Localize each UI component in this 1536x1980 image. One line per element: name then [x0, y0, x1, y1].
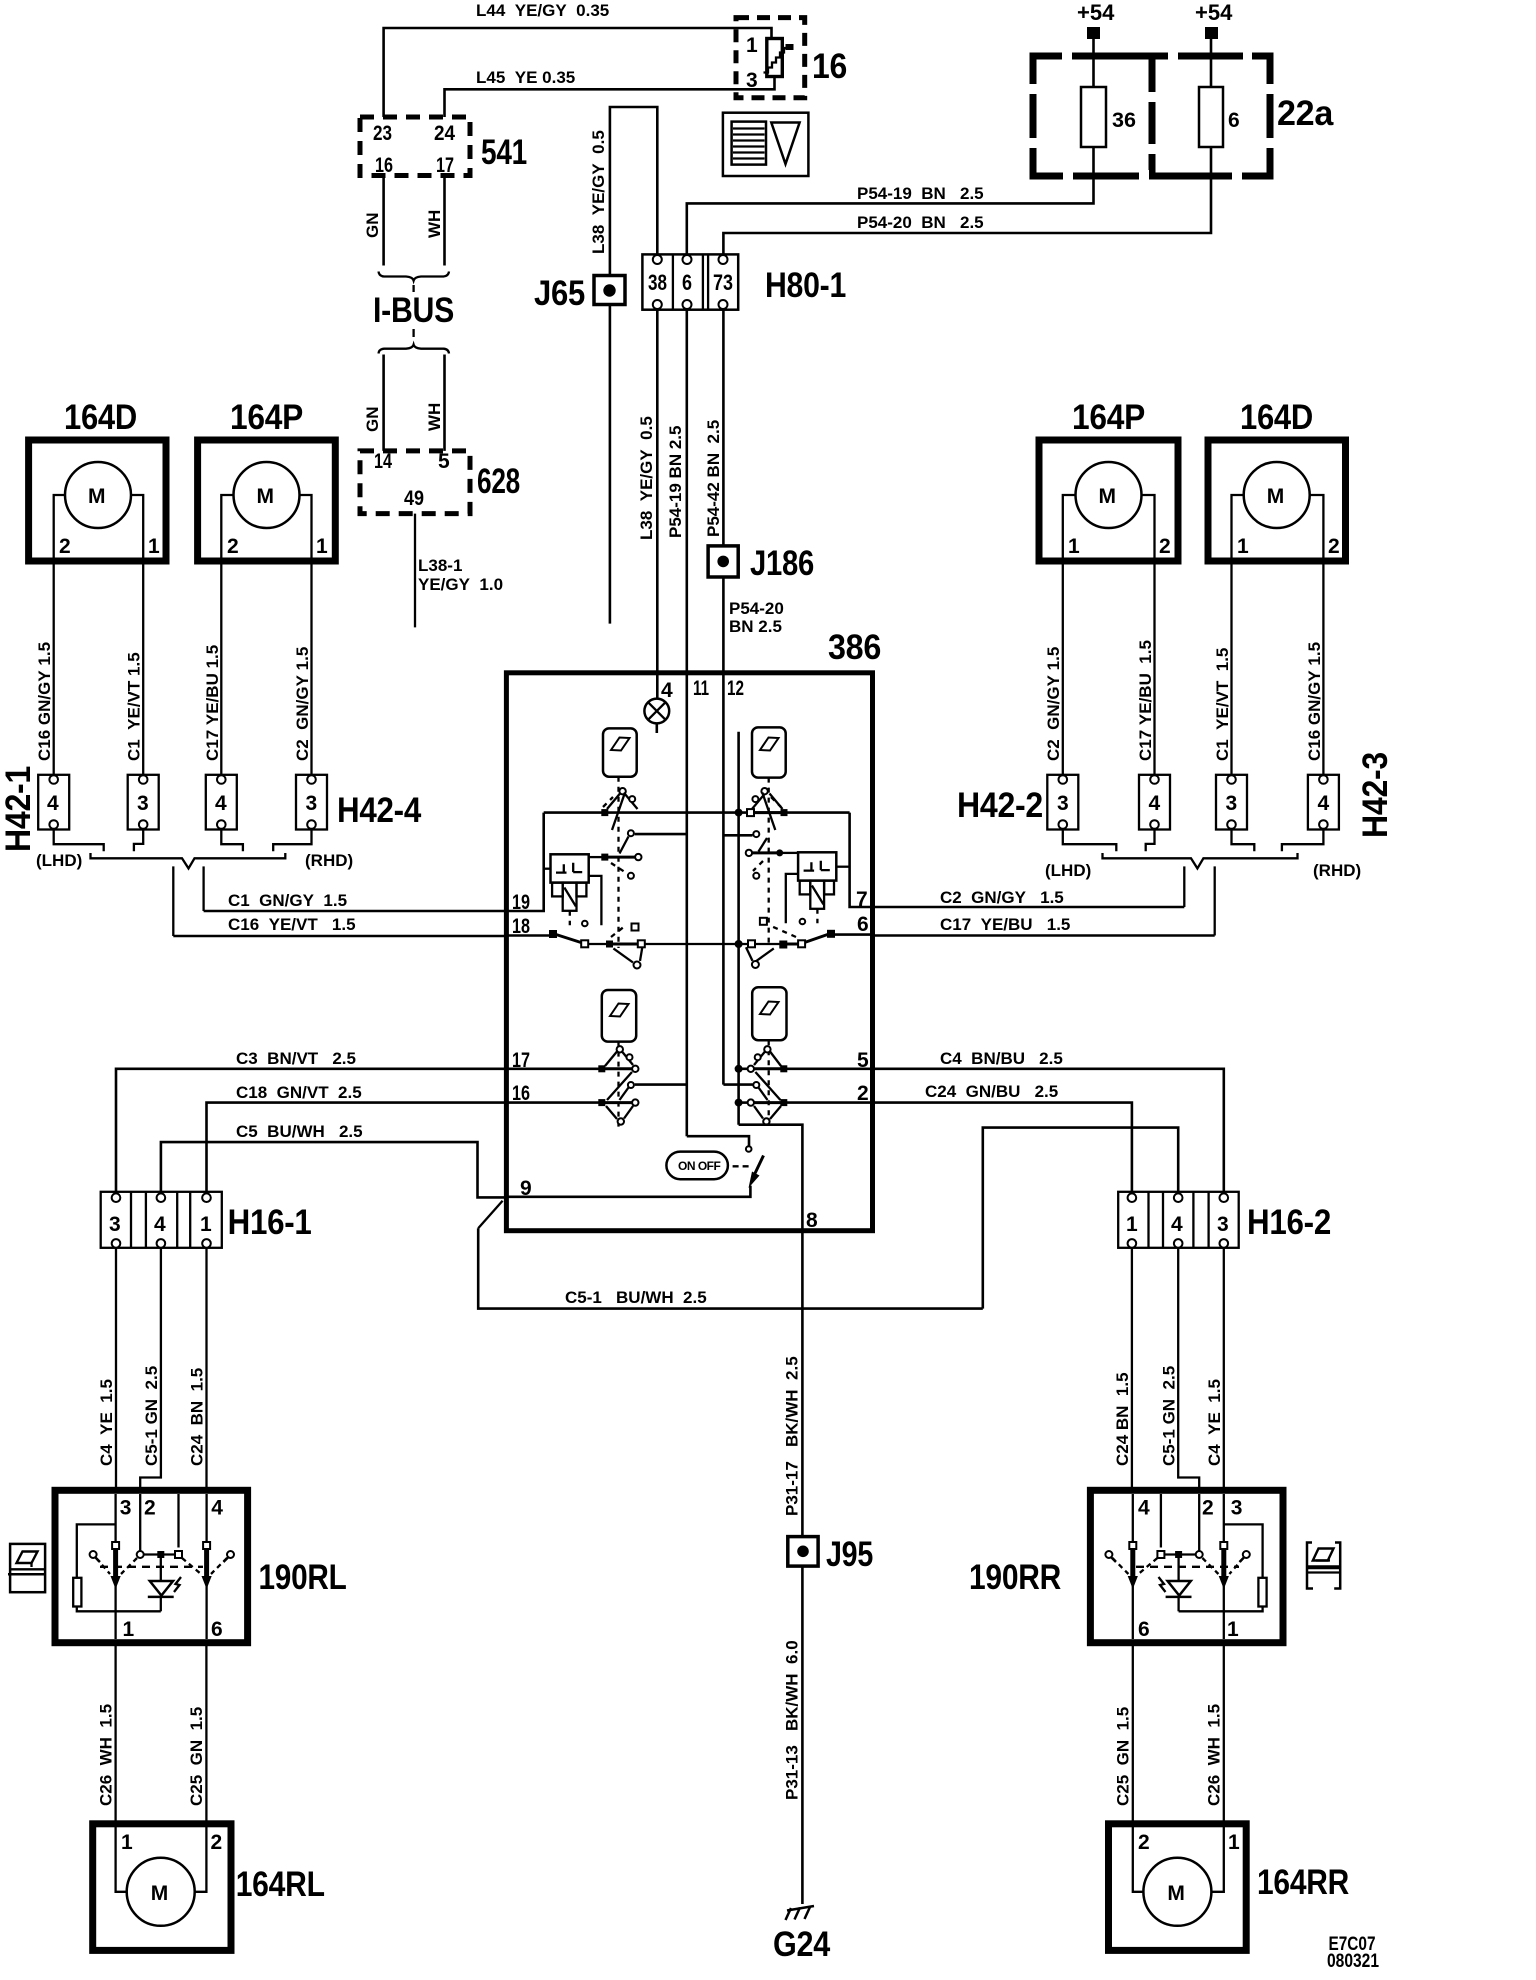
window icon rear-left — [602, 990, 636, 1042]
window icon front-left — [603, 728, 637, 776]
386 pin 11 internal wire — [685, 673, 688, 1136]
splice J186 — [708, 544, 814, 583]
svg-text:J95: J95 — [826, 1535, 873, 1574]
svg-text:2: 2 — [211, 1831, 223, 1854]
rear-left switch cluster — [506, 1042, 686, 1130]
window icon right of 190RR — [1307, 1543, 1340, 1589]
svg-text:2: 2 — [227, 535, 239, 558]
svg-text:1: 1 — [316, 535, 328, 558]
splice J65 — [534, 274, 625, 313]
svg-text:4: 4 — [215, 792, 227, 815]
svg-text:(LHD): (LHD) — [36, 851, 82, 870]
motor 164D front right — [1208, 398, 1346, 561]
wire C26 WH 1.5 right — [1205, 1643, 1224, 1824]
svg-text:2: 2 — [1328, 535, 1340, 558]
window icon rear-right — [752, 987, 786, 1040]
svg-text:22a: 22a — [1277, 94, 1334, 133]
wire C4 BN/BU 2.5 — [873, 1049, 1224, 1193]
wire P54-19 BN 2.5 — [687, 147, 1094, 254]
rear-right switch cluster — [723, 1040, 872, 1130]
connector H80-1 — [642, 254, 846, 309]
wire C25 GN 1.5 right — [1114, 1643, 1133, 1824]
svg-text:P31-13 BK/WH 6.0: P31-13 BK/WH 6.0 — [783, 1640, 802, 1800]
svg-text:P54-20: P54-20 — [729, 599, 784, 618]
svg-text:C1 YE/VT 1.5: C1 YE/VT 1.5 — [125, 652, 144, 761]
190RL internals — [73, 1494, 234, 1639]
svg-text:628: 628 — [477, 462, 520, 501]
svg-text:1: 1 — [148, 535, 160, 558]
svg-text:C5-1 BU/WH 2.5: C5-1 BU/WH 2.5 — [565, 1288, 707, 1307]
motor 164P front passenger (right group) — [1039, 398, 1178, 561]
svg-text:2: 2 — [1159, 535, 1171, 558]
wire C16 GN/GY 1.5 (164D-2) — [35, 561, 54, 775]
386 pin 9 wire — [506, 1186, 750, 1197]
svg-text:4: 4 — [1138, 1497, 1150, 1520]
wire C24 BN 1.5 right — [1113, 1248, 1132, 1491]
svg-text:(RHD): (RHD) — [305, 851, 353, 870]
svg-text:6: 6 — [857, 913, 869, 936]
LHD/RHD merge right — [1045, 829, 1361, 936]
svg-text:C25 GN 1.5: C25 GN 1.5 — [1114, 1707, 1133, 1806]
svg-text:16: 16 — [375, 154, 393, 177]
I-BUS brace lower — [379, 345, 450, 354]
ON OFF lockout symbol — [666, 1152, 763, 1188]
wire P54-42 BN 2.5 to J186 — [704, 310, 723, 546]
svg-text:L38 YE/GY 0.5: L38 YE/GY 0.5 — [589, 130, 608, 254]
svg-text:C25 GN 1.5: C25 GN 1.5 — [187, 1707, 206, 1806]
svg-text:1: 1 — [1126, 1213, 1138, 1236]
svg-text:541: 541 — [481, 133, 527, 172]
svg-text:C16 GN/GY 1.5: C16 GN/GY 1.5 — [1305, 642, 1324, 761]
svg-text:C24 BN 1.5: C24 BN 1.5 — [1113, 1372, 1132, 1466]
connector H42-3 — [1216, 752, 1395, 838]
LHD/RHD merge left — [36, 829, 353, 936]
connector H16-2 — [1118, 1192, 1331, 1248]
wire C5 BU/WH 2.5 — [161, 1122, 505, 1197]
svg-text:3: 3 — [109, 1213, 121, 1236]
svg-text:164RR: 164RR — [1257, 1863, 1349, 1902]
svg-text:H42-2: H42-2 — [957, 786, 1043, 825]
wire C24 GN/BU 2.5 — [873, 1082, 1132, 1193]
wire C4 YE 1.5 — [97, 1248, 116, 1491]
svg-text:L38 YE/GY 0.5: L38 YE/GY 0.5 — [637, 416, 656, 540]
wire P54-20 BN 2.5 to 386 pin 12 — [723, 577, 783, 673]
wire GN from 541 pin 16 — [363, 176, 384, 266]
svg-text:3: 3 — [746, 69, 758, 92]
fuse 6 — [1199, 87, 1240, 147]
wire C16 YE/VT 1.5 to 386 pin 18 — [173, 915, 506, 936]
svg-text:4: 4 — [47, 792, 59, 815]
power feed +54 (right) — [1195, 0, 1233, 87]
svg-text:3: 3 — [137, 792, 149, 815]
16 pins 1 3 — [746, 34, 758, 92]
wire C1 YE/VT 1.5 (164D-1) — [125, 561, 144, 775]
lockout switch feed from pin 11 — [687, 1136, 752, 1152]
svg-text:C1 GN/GY 1.5: C1 GN/GY 1.5 — [228, 891, 347, 910]
SEC1 — [360, 1, 775, 627]
svg-text:+54: +54 — [1077, 0, 1115, 25]
window icon left of 190RL — [8, 1544, 45, 1592]
svg-text:3: 3 — [1226, 792, 1238, 815]
svg-text:C5 BU/WH 2.5: C5 BU/WH 2.5 — [236, 1122, 363, 1141]
wire L38 YE/GY 0.5 bridge — [589, 107, 657, 276]
wire stub below J65 — [609, 305, 612, 624]
svg-text:M: M — [1167, 1882, 1185, 1905]
svg-text:I-BUS: I-BUS — [373, 291, 454, 330]
motor 164RR — [1109, 1824, 1350, 1951]
wire stub from 628 pin 49 — [414, 514, 416, 628]
wire WH to 628 pin 5 — [425, 355, 445, 451]
wire L44 YE/GY 0.35 — [384, 1, 772, 117]
svg-text:164RL: 164RL — [236, 1865, 325, 1904]
svg-text:4: 4 — [1171, 1213, 1183, 1236]
190RR internals — [1105, 1494, 1266, 1639]
wire C5-1 GN 2.5 — [140, 1248, 161, 1491]
svg-text:H42-1: H42-1 — [0, 766, 38, 852]
wire C1 GN/GY 1.5 to 386 pin 19 — [204, 891, 507, 911]
power feed +54 (left) — [1077, 0, 1115, 87]
svg-text:(LHD): (LHD) — [1045, 861, 1091, 880]
motor 164D front left — [29, 398, 166, 561]
svg-text:11: 11 — [693, 677, 709, 700]
wire C2 GN/GY 1.5 to 386 pin 7 — [873, 888, 1185, 907]
svg-text:L45 YE 0.35: L45 YE 0.35 — [476, 68, 575, 87]
svg-text:P54-19 BN 2.5: P54-19 BN 2.5 — [857, 184, 984, 203]
I-BUS brace upper — [379, 272, 450, 281]
386 pin labels left edge — [512, 891, 532, 1200]
386 pin 12 internal wire — [722, 673, 725, 1085]
svg-text:ON OFF: ON OFF — [678, 1159, 720, 1173]
svg-text:P31-17 BK/WH 2.5: P31-17 BK/WH 2.5 — [783, 1356, 802, 1516]
svg-text:38: 38 — [648, 270, 667, 295]
svg-text:3: 3 — [120, 1497, 132, 1520]
svg-text:190RR: 190RR — [969, 1558, 1061, 1597]
svg-text:M: M — [1267, 485, 1285, 508]
thermal breaker right — [786, 852, 850, 924]
window switch unit 386 — [506, 628, 881, 1231]
svg-text:5: 5 — [438, 450, 450, 473]
wire L45 YE 0.35 — [445, 68, 775, 117]
svg-text:1: 1 — [123, 1618, 135, 1641]
svg-text:4: 4 — [211, 1497, 223, 1520]
svg-text:P54-20 BN 2.5: P54-20 BN 2.5 — [857, 213, 984, 232]
connector H42-2 — [957, 775, 1170, 830]
wire C4 YE 1.5 right — [1205, 1248, 1224, 1491]
svg-text:C17 YE/BU 1.5: C17 YE/BU 1.5 — [203, 645, 222, 761]
rheostat R in 16 — [764, 39, 794, 77]
svg-text:C4 YE 1.5: C4 YE 1.5 — [97, 1379, 116, 1466]
wire C5-1 BU/WH riser right — [983, 1128, 1178, 1309]
front-right switch cluster — [723, 778, 798, 946]
I-BUS node — [373, 285, 454, 337]
motor 164RL — [93, 1824, 325, 1951]
ground G24 — [773, 1906, 831, 1964]
internal bus to pin 8 — [739, 732, 803, 1231]
thermal breaker left — [544, 854, 602, 926]
svg-text:2: 2 — [59, 535, 71, 558]
svg-text:L38-1: L38-1 — [418, 556, 462, 575]
wire kink from 386 pin 9 — [478, 1201, 502, 1229]
fuse 36 — [1081, 87, 1136, 147]
svg-text:1: 1 — [1227, 1618, 1239, 1641]
rear-right window switch 190RR — [969, 1490, 1283, 1642]
label L38-1 YE/GY 1.0 — [418, 556, 503, 594]
386 pin labels right edge — [806, 888, 869, 1232]
svg-text:J186: J186 — [750, 544, 814, 583]
svg-text:164P: 164P — [230, 398, 303, 437]
svg-text:23: 23 — [373, 122, 392, 145]
svg-text:C16 YE/VT 1.5: C16 YE/VT 1.5 — [228, 915, 356, 934]
svg-text:BN 2.5: BN 2.5 — [729, 617, 782, 636]
svg-text:19: 19 — [512, 891, 530, 914]
svg-text:080321: 080321 — [1327, 1951, 1379, 1972]
svg-text:1: 1 — [1228, 1831, 1240, 1854]
svg-text:164D: 164D — [64, 398, 137, 437]
svg-text:164D: 164D — [1240, 398, 1313, 437]
svg-text:1: 1 — [200, 1213, 212, 1236]
svg-text:2: 2 — [1202, 1497, 1214, 1520]
SEC10 — [773, 1231, 1379, 1972]
svg-text:17: 17 — [436, 154, 454, 177]
wire C3 BN/VT 2.5 — [116, 1049, 506, 1193]
svg-text:WH: WH — [425, 403, 444, 431]
svg-text:12: 12 — [727, 677, 744, 700]
window function icon box — [723, 113, 809, 176]
svg-text:1: 1 — [1237, 535, 1249, 558]
SEC6 — [0, 398, 506, 936]
splice J95 — [788, 1535, 873, 1574]
wire P54-19 BN 2.5 to 386 pin 11 — [666, 310, 687, 673]
wire WH from 541 pin 17 — [425, 176, 445, 266]
svg-text:4: 4 — [1318, 792, 1330, 815]
svg-text:14: 14 — [374, 450, 392, 473]
svg-text:190RL: 190RL — [259, 1558, 347, 1597]
svg-text:24: 24 — [434, 122, 455, 145]
connector H42-4 — [206, 775, 422, 830]
svg-text:6: 6 — [682, 270, 692, 295]
svg-text:C16 GN/GY 1.5: C16 GN/GY 1.5 — [35, 642, 54, 761]
svg-text:3: 3 — [1057, 792, 1069, 815]
rear-left window switch 190RL — [55, 1490, 347, 1642]
wire P54-20 BN 2.5 — [723, 147, 1211, 254]
svg-text:1: 1 — [746, 34, 758, 57]
svg-text:C26 WH 1.5: C26 WH 1.5 — [1205, 1704, 1224, 1806]
wire C16 GN/GY 1.5 (164D-2 right) — [1305, 561, 1324, 775]
svg-text:C2 GN/GY 1.5: C2 GN/GY 1.5 — [293, 647, 312, 761]
svg-text:C1 YE/VT 1.5: C1 YE/VT 1.5 — [1213, 648, 1232, 761]
svg-text:18: 18 — [512, 915, 530, 938]
svg-text:C18 GN/VT 2.5: C18 GN/VT 2.5 — [236, 1083, 362, 1102]
svg-text:C5-1 GN 2.5: C5-1 GN 2.5 — [142, 1366, 161, 1466]
svg-text:4: 4 — [1149, 792, 1161, 815]
svg-text:C17 YE/BU 1.5: C17 YE/BU 1.5 — [940, 915, 1070, 934]
svg-text:C5-1 GN 2.5: C5-1 GN 2.5 — [1160, 1366, 1179, 1466]
drawing number E7C07 080321 — [1327, 1934, 1379, 1972]
svg-text:C24 GN/BU 2.5: C24 GN/BU 2.5 — [925, 1082, 1058, 1101]
riser to pin 19 — [506, 813, 543, 911]
svg-text:C2 GN/GY 1.5: C2 GN/GY 1.5 — [1044, 647, 1063, 761]
svg-text:3: 3 — [1231, 1497, 1243, 1520]
386 pin numbers top — [661, 677, 744, 702]
pin 18 contact arm — [506, 924, 747, 969]
svg-text:M: M — [151, 1882, 169, 1905]
wire GN to 628 pin 14 — [363, 355, 384, 451]
svg-text:C24 BN 1.5: C24 BN 1.5 — [188, 1368, 207, 1466]
svg-text:YE/GY 1.0: YE/GY 1.0 — [418, 575, 503, 594]
628 pins 14 5 49 — [374, 450, 450, 510]
svg-text:C4 YE 1.5: C4 YE 1.5 — [1205, 1379, 1224, 1466]
wire C17 YE/BU 1.5 to 386 pin 6 — [873, 915, 1215, 936]
svg-text:C26 WH 1.5: C26 WH 1.5 — [97, 1704, 116, 1806]
svg-text:4: 4 — [661, 679, 673, 702]
svg-text:C4 BN/BU 2.5: C4 BN/BU 2.5 — [940, 1049, 1063, 1068]
main bus wire y813 — [544, 811, 850, 814]
541 pins 23 24 16 17 — [373, 122, 455, 177]
lamp at 386 pin 4 — [644, 699, 669, 733]
wire C18 GN/VT 2.5 — [207, 1083, 507, 1193]
svg-text:H42-3: H42-3 — [1356, 752, 1395, 838]
wire C5-1 BU/WH 2.5 — [478, 1228, 983, 1308]
svg-text:H80-1: H80-1 — [765, 266, 846, 305]
svg-text:H42-4: H42-4 — [337, 791, 422, 830]
wire C17 YE/BU 1.5 (164P-2 right) — [1136, 561, 1155, 775]
wire C25 GN 1.5 — [187, 1643, 206, 1824]
svg-text:J65: J65 — [534, 274, 585, 313]
front-left switch cluster — [589, 777, 687, 948]
SEC3 — [687, 0, 1334, 254]
svg-text:2: 2 — [1138, 1831, 1150, 1854]
connector H42-1 — [0, 766, 159, 852]
svg-text:49: 49 — [404, 487, 424, 510]
SEC5 — [506, 628, 881, 1232]
svg-text:36: 36 — [1112, 109, 1136, 132]
component 16 (rheostat box) — [736, 18, 847, 98]
svg-text:16: 16 — [812, 47, 847, 86]
SEC2 — [723, 18, 847, 176]
connector H16-1 — [101, 1192, 312, 1248]
svg-text:M: M — [88, 485, 106, 508]
SEC9 — [873, 1049, 1350, 1950]
svg-text:6: 6 — [1228, 109, 1240, 132]
wire C1 YE/VT 1.5 (164D-1 right) — [1213, 561, 1232, 775]
wire C2 GN/GY 1.5 (164P-1) — [293, 561, 312, 775]
wire P31-13 BK/WH 6.0 — [783, 1566, 803, 1904]
window icon front-right — [752, 727, 786, 777]
connector 541 — [360, 117, 527, 176]
SEC7 — [873, 398, 1396, 936]
svg-text:GN: GN — [363, 213, 382, 239]
svg-text:G24: G24 — [773, 1925, 831, 1964]
svg-text:3: 3 — [306, 792, 318, 815]
connector 628 — [360, 451, 520, 514]
svg-text:6: 6 — [211, 1618, 223, 1641]
svg-text:1: 1 — [121, 1831, 133, 1854]
svg-text:+54: +54 — [1195, 0, 1233, 25]
svg-text:GN: GN — [363, 407, 382, 433]
svg-text:H16-1: H16-1 — [228, 1203, 312, 1242]
svg-text:7: 7 — [856, 888, 868, 911]
svg-text:1: 1 — [1068, 535, 1080, 558]
svg-text:73: 73 — [713, 270, 733, 295]
svg-text:2: 2 — [144, 1497, 156, 1520]
riser to pin 7 — [850, 813, 873, 907]
SEC4 — [534, 107, 846, 699]
pin 6 contact arm — [746, 918, 873, 968]
H80-1 cell numbers 38 6 73 — [648, 270, 733, 295]
svg-text:C17 YE/BU 1.5: C17 YE/BU 1.5 — [1136, 640, 1155, 761]
H80-1 pin circles — [653, 255, 728, 309]
svg-text:H16-2: H16-2 — [1247, 1203, 1331, 1242]
fuse box 22a — [1027, 50, 1334, 182]
motor 164P front passenger (left group) — [198, 398, 336, 561]
svg-text:(RHD): (RHD) — [1313, 861, 1361, 880]
wire C2 GN/GY 1.5 (164P-1 right) — [1044, 561, 1063, 775]
svg-text:6: 6 — [1138, 1618, 1150, 1641]
svg-text:164P: 164P — [1072, 398, 1145, 437]
wire L38 YE/GY 0.5 to 386 pin 4 — [637, 310, 657, 699]
svg-text:386: 386 — [828, 628, 881, 667]
svg-text:C2 GN/GY 1.5: C2 GN/GY 1.5 — [940, 888, 1064, 907]
svg-text:WH: WH — [425, 210, 444, 238]
svg-text:C3 BN/VT 2.5: C3 BN/VT 2.5 — [236, 1049, 356, 1068]
svg-text:L44 YE/GY 0.35: L44 YE/GY 0.35 — [476, 1, 609, 20]
wire C26 WH 1.5 — [97, 1643, 116, 1824]
wire P31-17 BK/WH 2.5 from 386 pin 8 — [783, 1231, 803, 1537]
svg-text:M: M — [257, 485, 275, 508]
svg-text:M: M — [1099, 485, 1117, 508]
svg-text:P54-19 BN 2.5: P54-19 BN 2.5 — [666, 426, 685, 538]
svg-text:4: 4 — [154, 1213, 166, 1236]
wire C24 BN 1.5 — [188, 1248, 207, 1491]
wire C5-1 GN 2.5 right — [1160, 1248, 1200, 1491]
svg-text:3: 3 — [1217, 1213, 1229, 1236]
wire C17 YE/BU 1.5 (164P-2) — [203, 561, 222, 775]
svg-text:8: 8 — [806, 1209, 818, 1232]
SEC8 — [8, 1049, 983, 1950]
svg-text:P54-42 BN 2.5: P54-42 BN 2.5 — [704, 420, 723, 537]
